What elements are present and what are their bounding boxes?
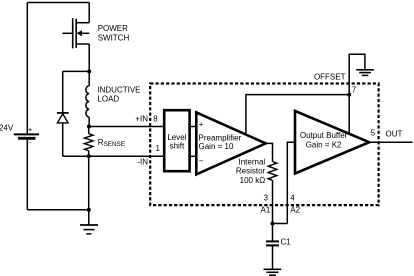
- wire +IN: [89, 126, 164, 128]
- wire pin 4 up to buffer input: [287, 142, 295, 223]
- svg-text:OFFSET: OFFSET: [314, 73, 346, 82]
- svg-text:+IN: +IN: [135, 114, 148, 123]
- diode D1: [57, 113, 69, 123]
- capacitor C1: [266, 224, 279, 270]
- svg-text:Resistor: Resistor: [236, 167, 266, 176]
- wire OUT: [369, 141, 412, 143]
- wire diode lower: [62, 123, 64, 156]
- wire A1 to A2 jumper: [273, 223, 288, 225]
- wire branch to diode: [63, 70, 89, 72]
- inductor L1 inductive load: [86, 71, 89, 126]
- wire preamp output: [266, 143, 273, 161]
- node A1 A2 junction: [271, 222, 275, 226]
- svg-text:Internal: Internal: [239, 157, 266, 166]
- dashed IC boundary box: [150, 84, 378, 206]
- svg-text:A2: A2: [290, 206, 300, 215]
- svg-text:+: +: [199, 120, 204, 129]
- svg-text:1: 1: [156, 144, 161, 153]
- op-amp U1b preamplifier: [196, 112, 265, 174]
- svg-text:OUT: OUT: [386, 130, 403, 139]
- wire top rail: [27, 2, 89, 4]
- wire bottom rail: [27, 209, 89, 211]
- svg-text:Output Buffer: Output Buffer: [300, 131, 348, 140]
- svg-text:Gain = 10: Gain = 10: [199, 142, 234, 151]
- svg-text:−: −: [199, 156, 204, 165]
- ground GND2 offset: [356, 70, 374, 76]
- svg-text:A1: A1: [261, 206, 271, 215]
- wire source vertical: [88, 44, 90, 71]
- svg-text:5: 5: [371, 128, 376, 137]
- svg-text:SWITCH: SWITCH: [98, 34, 130, 43]
- wire feedback tap to pin 7: [246, 95, 349, 135]
- wire diode to sense node: [63, 155, 89, 157]
- resistor RSENSE: [84, 127, 93, 157]
- svg-text:24V: 24V: [0, 123, 14, 132]
- wire -IN: [89, 155, 165, 157]
- svg-text:4: 4: [290, 193, 295, 202]
- svg-text:C1: C1: [281, 237, 292, 246]
- svg-text:Gain = K2: Gain = K2: [306, 141, 342, 150]
- wire left rail lower: [26, 140, 28, 210]
- node +IN junction: [87, 125, 91, 129]
- wire drain vertical: [88, 3, 90, 23]
- svg-text:7: 7: [352, 85, 357, 94]
- wire pin 7 down to buffer: [348, 95, 350, 134]
- level shift block U1a: [164, 110, 189, 171]
- op-amp U1c output buffer: [295, 111, 369, 174]
- wire sense to ground rail: [88, 156, 90, 209]
- wire pin 7 up to offset ground: [349, 54, 365, 94]
- wire level shift to preamp lower: [190, 155, 197, 157]
- svg-text:INDUCTIVE: INDUCTIVE: [97, 86, 140, 95]
- svg-text:LOAD: LOAD: [97, 95, 119, 104]
- svg-text:3: 3: [264, 193, 269, 202]
- node -IN junction: [87, 154, 91, 158]
- resistor internal 100k: [268, 162, 277, 224]
- battery B1 24V: [14, 134, 39, 138]
- svg-text:+: +: [28, 125, 33, 134]
- node bottom rail junction: [87, 208, 91, 212]
- svg-text:-IN: -IN: [137, 158, 148, 167]
- wire level shift to preamp upper: [190, 126, 197, 128]
- svg-text:shift: shift: [170, 142, 185, 151]
- svg-text:POWER: POWER: [98, 24, 128, 33]
- wire diode upper: [62, 71, 64, 112]
- ground GND1 bottom left: [80, 210, 98, 234]
- transistor Q1 power switch PMOS: [62, 18, 89, 48]
- svg-text:8: 8: [153, 114, 158, 123]
- svg-text:100 kΩ: 100 kΩ: [240, 176, 266, 185]
- node junction at source: [87, 69, 91, 73]
- node pin 7 junction: [347, 93, 351, 97]
- wire left rail upper: [26, 3, 28, 134]
- ground GND3 below C1: [264, 269, 282, 275]
